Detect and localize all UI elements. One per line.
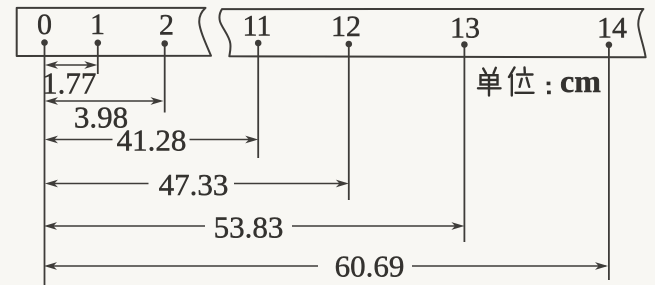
dimension arrow 1.77 [45,61,97,69]
svg-text:1.77: 1.77 [42,66,96,101]
svg-text:14: 14 [597,11,627,44]
svg-text:53.83: 53.83 [214,209,284,244]
dimension arrow 47.33 [45,180,349,188]
svg-text:41.28: 41.28 [117,123,187,158]
svg-text:12: 12 [331,10,361,43]
svg-text:13: 13 [450,11,480,44]
extension line from 13 [463,45,465,243]
svg-text:11: 11 [243,9,272,42]
tick dot 1 [95,40,102,47]
ruler right piece [219,9,645,57]
unit label 单 (dan) drawn as strokes [478,68,501,96]
tick dot 11 [255,40,262,47]
extension line from 12 [348,44,350,200]
tick dot 2 [161,40,168,47]
extension line from 14 [608,45,610,280]
svg-text:cm: cm [560,63,601,99]
svg-text:1: 1 [90,8,105,41]
extension line from 0 [44,43,46,285]
extension line from 11 [257,43,259,158]
svg-text:2: 2 [159,8,174,41]
ruler left piece [17,8,211,56]
svg-text:0: 0 [37,8,52,41]
svg-text:60.69: 60.69 [335,249,405,284]
extension line from 1 [97,43,99,74]
dimension arrow 53.83 [44,222,464,230]
unit label colon [547,82,551,95]
dimension arrow 41.28 [45,136,258,144]
extension line from 2 [164,44,166,113]
tick dot 14 [606,42,613,49]
dimension arrow 60.69 [44,262,608,270]
dimension arrow 3.98 [45,97,164,105]
tick dot 12 [346,41,353,48]
unit label 位 (wei) drawn as strokes [509,68,534,96]
tick dot 13 [461,41,468,48]
svg-text:47.33: 47.33 [159,167,229,202]
tick dot 0 [41,39,48,46]
